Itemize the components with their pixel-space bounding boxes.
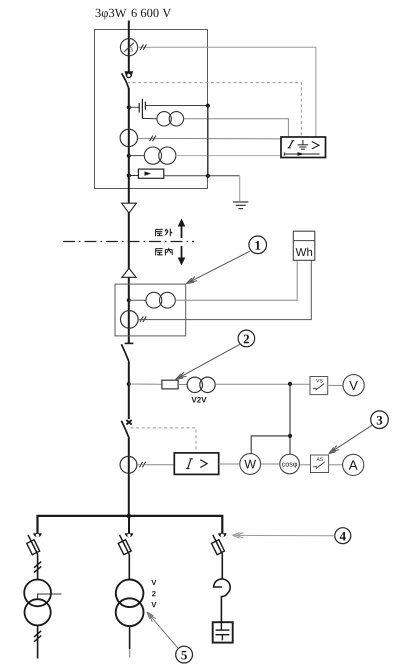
wire cos to AS [299, 464, 310, 466]
outdoor-indoor boundary [63, 241, 194, 243]
leader arrow 3 [329, 425, 373, 454]
VT V2V [187, 377, 215, 392]
junction [127, 298, 131, 302]
leader arrow 4 [233, 533, 335, 539]
leader arrow 2 [176, 344, 240, 379]
wire fuse to VT [178, 384, 187, 386]
wire VT to VS [215, 383, 310, 385]
wire VT to Wh [175, 260, 297, 300]
hash marks ZCT3 [139, 462, 145, 468]
leader arrow 5 [147, 612, 178, 649]
relay DGR box [281, 137, 326, 158]
ZCT metering [121, 311, 139, 329]
junction [127, 173, 131, 177]
PF fuse [162, 380, 178, 389]
cutout PC middle [118, 533, 133, 554]
disconnector DS [121, 343, 133, 361]
hash marks ZCT1 line [140, 44, 146, 50]
CT PAS built-in [129, 147, 176, 164]
hash marks left feeder bottom [34, 631, 41, 642]
wire left feeder bottom [37, 625, 39, 658]
junction [127, 105, 131, 109]
circled 1 [249, 236, 267, 254]
wire main line to bus [128, 438, 130, 516]
enclosure box metering [115, 284, 186, 336]
wire VT to DGR [184, 119, 289, 137]
label 3phi3W 6600V [96, 9, 172, 20]
meter Wh [293, 231, 315, 260]
lightning arrester LA [129, 169, 164, 178]
junction [127, 154, 131, 158]
circled 5 [176, 646, 193, 663]
wire main line top [128, 21, 130, 72]
arrow indoor down [178, 246, 186, 266]
wire middle feeder [128, 555, 130, 580]
wire main line lower [128, 362, 130, 419]
relay OCR box [174, 453, 218, 475]
wire left feeder [37, 555, 39, 581]
circled 3 [371, 411, 389, 429]
circled 2 [238, 330, 255, 347]
label V2V vertical [151, 580, 156, 607]
cutout PC left [27, 533, 42, 554]
hash marks ZCT2 line [150, 136, 156, 142]
switch VS [310, 377, 328, 395]
wire OCR to W [219, 463, 240, 465]
junction [127, 514, 132, 519]
wattmeter W [240, 454, 261, 475]
ZCT ZCT1 [120, 39, 137, 56]
transformer T2 three phase [116, 580, 144, 627]
arrow outdoor up [178, 219, 186, 239]
wire right feeder [221, 555, 223, 579]
cable head outdoor [122, 203, 137, 213]
junction [206, 104, 210, 108]
cutout hook [214, 579, 231, 622]
load break switch LBS [121, 420, 131, 438]
wire ZCT to Wh [138, 260, 311, 319]
power factor meter cos phi [280, 454, 300, 474]
leader arrow 1 [186, 251, 250, 283]
junction [288, 382, 292, 386]
wire CT to DGR [176, 155, 281, 157]
wire ZCT2 to DGR [138, 137, 282, 140]
wire VT branch down [289, 384, 291, 454]
circled 4 [335, 528, 351, 544]
label V2V [191, 397, 206, 403]
VT metering [129, 292, 176, 308]
dashed control wire PAS to DGR [127, 83, 301, 137]
wire main line middle [128, 88, 130, 343]
earth conductor [207, 106, 209, 176]
wire ZCT1 to DGR [138, 47, 316, 137]
VT PAS built-in [142, 112, 183, 126]
wire ZCT3 to OCR [137, 464, 174, 466]
ZCT ZCT2 [120, 129, 137, 146]
capacitor SC [213, 622, 233, 642]
voltmeter V [343, 375, 364, 396]
capacitor PAS built-in [129, 99, 146, 119]
PAS switch fixed contact [124, 71, 133, 78]
enclosure box PAS [95, 30, 208, 189]
junction [206, 174, 210, 178]
wire middle feeder drop [128, 516, 130, 534]
junction [127, 382, 131, 386]
wire branch to W [251, 436, 290, 454]
kanji okunai (indoor) [156, 248, 173, 256]
wire VS to V [328, 384, 343, 386]
cable head indoor [122, 268, 136, 277]
ground [233, 202, 248, 209]
switch AS [311, 455, 329, 473]
bus bar [38, 516, 223, 534]
hash marks left feeder top [34, 562, 41, 573]
PAS switch blade [122, 73, 129, 88]
wire AS to A [329, 464, 343, 466]
wire capacitor to earth conductor [145, 105, 208, 107]
kanji okugai (outdoor) [156, 229, 173, 237]
wire to PF fuse [129, 383, 162, 385]
wire middle feeder bottom gray [129, 649, 131, 658]
cutout PC right [212, 533, 227, 554]
dashed trip wire LBS to OCR [131, 428, 197, 453]
wire LA to ground [164, 175, 240, 177]
wire middle feeder bottom [129, 626, 131, 649]
wire W to cos [261, 463, 280, 465]
hash marks metering ZCT [140, 316, 146, 322]
transformer T1 single phase [24, 580, 51, 626]
ZCT ZCT3 [120, 456, 137, 473]
junction [288, 434, 292, 438]
ammeter A [343, 454, 364, 475]
center tap T1 [38, 594, 62, 599]
